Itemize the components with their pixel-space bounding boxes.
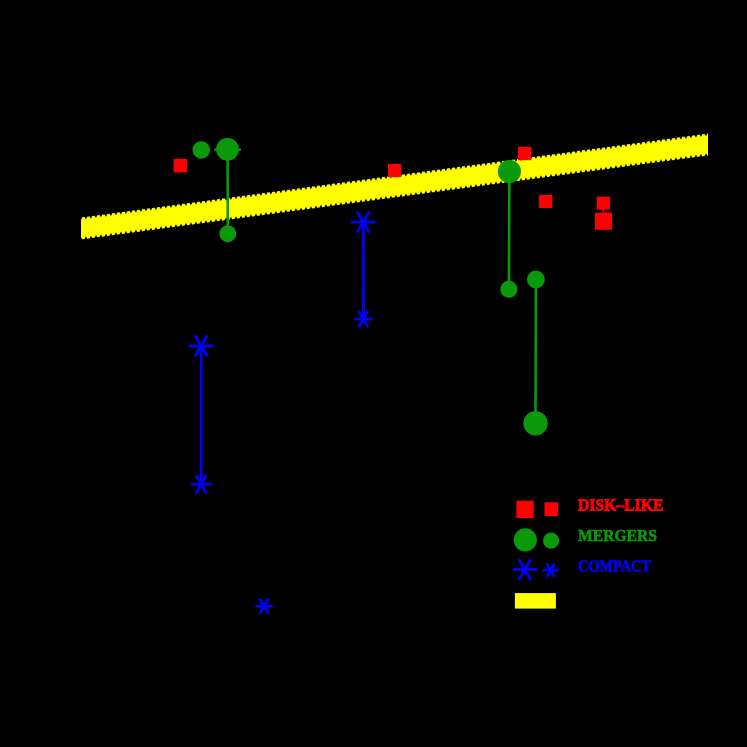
big green circle D2 (523, 411, 547, 435)
svg-text:DISK–LIKE: DISK–LIKE (578, 496, 664, 515)
small green circle A (193, 141, 210, 158)
legend red square big (516, 501, 533, 518)
asterisk B2 (191, 475, 212, 493)
asterisk A2 (354, 311, 373, 327)
asterisk single (255, 598, 273, 614)
x-error nub circle B (214, 149, 241, 151)
green circle D (527, 271, 545, 289)
yellow band (81, 134, 708, 240)
asterisk B1 (189, 335, 214, 356)
green line pair1 (226, 149, 229, 233)
blue line pair A (362, 222, 365, 319)
svg-text:MERGERS: MERGERS (578, 526, 657, 545)
asterisk A1 (351, 211, 375, 232)
svg-text:COMPACT: COMPACT (578, 556, 652, 575)
legend green circle big (514, 528, 537, 551)
big green circle B (216, 138, 239, 161)
red square 5 (597, 197, 610, 210)
red square 2 (388, 164, 401, 177)
blue line pair B (200, 346, 203, 484)
big green circle C (498, 160, 521, 183)
legend asterisk big (513, 559, 537, 580)
red square 6 (595, 213, 612, 230)
green circle B2 (219, 225, 236, 242)
legend green circle small (543, 533, 559, 549)
red square 4 (539, 195, 552, 208)
green line pair2 (508, 172, 511, 290)
red square 1 (174, 159, 188, 173)
green line pair3 (534, 280, 537, 424)
red connector line (603, 203, 605, 221)
legend yellow swatch (515, 593, 556, 609)
legend red square small (545, 502, 559, 516)
legend asterisk small (543, 563, 559, 577)
red square 3 (518, 147, 531, 160)
green circle C2 (500, 281, 517, 298)
